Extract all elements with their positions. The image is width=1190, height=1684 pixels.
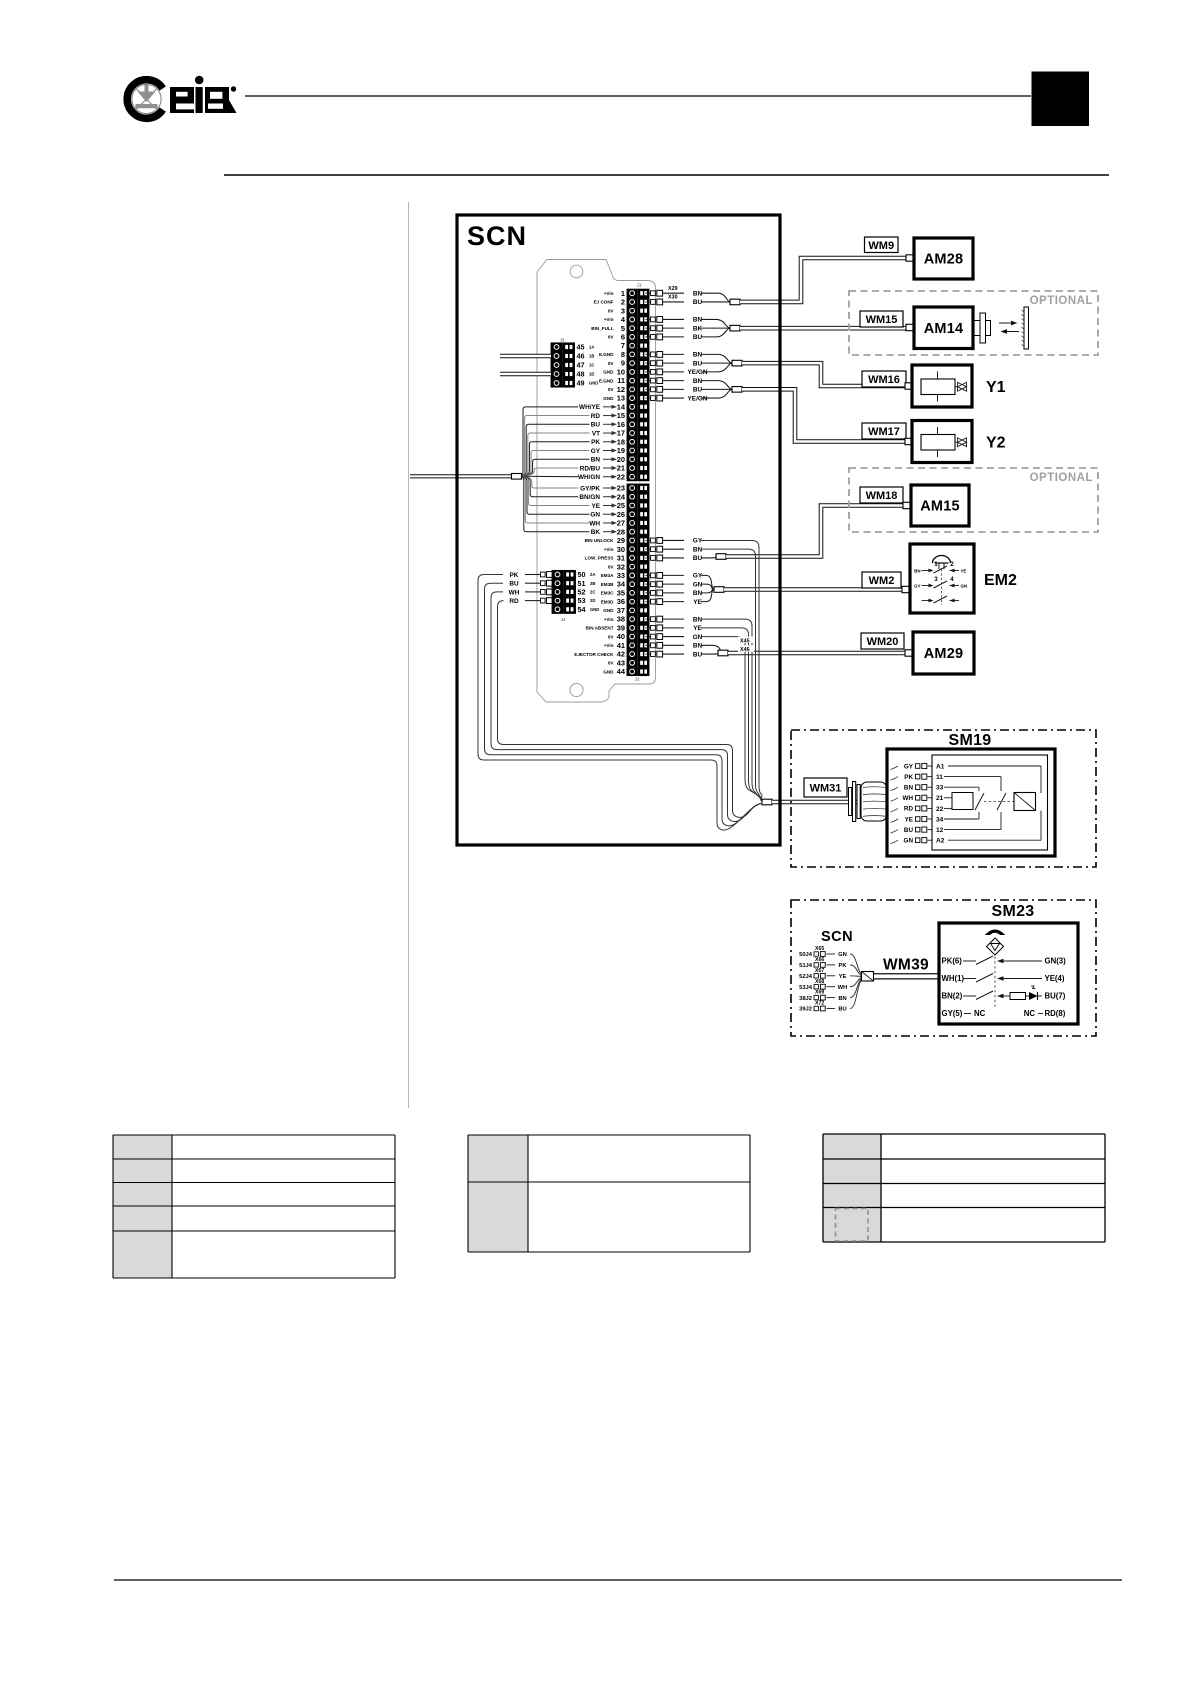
svg-text:Y2: Y2 (986, 435, 1006, 452)
svg-text:0V: 0V (608, 661, 615, 666)
svg-text:BIN ABSENT: BIN ABSENT (586, 626, 614, 631)
svg-text:BU(7): BU(7) (1045, 992, 1066, 1001)
svg-text:2C: 2C (590, 590, 595, 595)
svg-text:BN: BN (693, 317, 703, 324)
svg-text:GND: GND (603, 396, 614, 401)
svg-text:YE(4): YE(4) (1045, 974, 1065, 983)
svg-text:29: 29 (617, 536, 625, 545)
svg-text:RD: RD (509, 598, 519, 605)
svg-text:GND: GND (603, 608, 614, 613)
svg-text:22: 22 (617, 472, 625, 481)
svg-text:39: 39 (617, 623, 625, 632)
svg-text:WH: WH (509, 589, 520, 596)
svg-text:BU: BU (904, 827, 914, 834)
svg-text:WH/YE: WH/YE (579, 404, 601, 411)
svg-text:46: 46 (577, 352, 585, 361)
svg-text:0V: 0V (608, 335, 615, 340)
svg-text:GY: GY (914, 584, 920, 589)
svg-text:35: 35 (617, 588, 625, 597)
svg-text:YE: YE (839, 974, 847, 980)
svg-text:BN(2): BN(2) (942, 992, 963, 1001)
svg-text:51: 51 (578, 579, 586, 588)
svg-text:AM14: AM14 (924, 321, 963, 337)
svg-text:BN/GN: BN/GN (579, 494, 600, 501)
svg-text:41: 41 (617, 641, 625, 650)
svg-text:WM16: WM16 (868, 374, 900, 386)
svg-text:GN: GN (961, 584, 968, 589)
svg-text:2: 2 (950, 561, 954, 568)
svg-text:GY: GY (904, 763, 914, 770)
svg-text:54: 54 (578, 605, 586, 614)
svg-text:BN: BN (693, 616, 703, 623)
svg-text:BU: BU (591, 422, 601, 429)
svg-text:50J4: 50J4 (799, 952, 813, 958)
svg-text:17: 17 (617, 429, 625, 438)
svg-text:45: 45 (577, 343, 585, 352)
svg-text:WH(1): WH(1) (942, 974, 965, 983)
svg-text:PK: PK (904, 774, 913, 781)
svg-text:30: 30 (617, 545, 625, 554)
svg-text:BN: BN (904, 785, 914, 792)
svg-text:0V: 0V (608, 634, 615, 639)
svg-text:+Vin: +Vin (604, 617, 614, 622)
svg-text:12: 12 (936, 827, 944, 834)
svg-text:BN: BN (838, 996, 846, 1002)
svg-text:YE: YE (905, 816, 913, 823)
svg-text:J2: J2 (635, 677, 640, 682)
svg-text:GND: GND (589, 381, 598, 386)
svg-text:14: 14 (617, 402, 626, 411)
svg-text:42: 42 (617, 650, 625, 659)
svg-text:33: 33 (936, 785, 944, 792)
svg-text:BN: BN (693, 291, 703, 298)
svg-text:BIN UNLOCK: BIN UNLOCK (585, 538, 615, 543)
svg-text:+Vin: +Vin (604, 291, 614, 296)
svg-text:WM18: WM18 (866, 490, 898, 502)
svg-text:6: 6 (621, 333, 625, 342)
svg-text:BU: BU (838, 1007, 846, 1013)
svg-text:13: 13 (617, 394, 625, 403)
svg-text:YE: YE (961, 569, 967, 574)
svg-text:5: 5 (621, 324, 625, 333)
svg-text:WH: WH (903, 795, 914, 802)
svg-text:11: 11 (617, 376, 625, 385)
svg-text:WH: WH (838, 985, 848, 991)
svg-text:0V: 0V (608, 387, 615, 392)
svg-text:10: 10 (617, 367, 625, 376)
svg-text:OPTIONAL: OPTIONAL (1030, 472, 1093, 484)
svg-text:50: 50 (578, 570, 586, 579)
svg-text:7: 7 (621, 341, 625, 350)
svg-text:1: 1 (934, 561, 938, 568)
svg-text:BN: BN (693, 378, 703, 385)
svg-text:1B: 1B (589, 354, 594, 359)
svg-text:3: 3 (621, 306, 625, 315)
svg-text:49: 49 (577, 379, 585, 388)
svg-text:WM39: WM39 (883, 957, 929, 974)
svg-text:J3: J3 (560, 338, 565, 343)
svg-text:PK(6): PK(6) (942, 957, 963, 966)
svg-text:15: 15 (617, 411, 625, 420)
svg-text:RD: RD (904, 806, 914, 813)
svg-text:9: 9 (621, 359, 625, 368)
svg-text:34: 34 (617, 580, 626, 589)
svg-text:33: 33 (617, 571, 625, 580)
svg-text:GY: GY (693, 538, 703, 545)
svg-text:3: 3 (934, 576, 938, 583)
svg-text:RD: RD (591, 413, 601, 420)
svg-text:BN: BN (693, 546, 703, 553)
svg-text:39J2: 39J2 (799, 1007, 812, 1013)
svg-text:PK: PK (591, 439, 600, 446)
svg-text:1A: 1A (589, 345, 594, 350)
svg-text:21: 21 (617, 464, 625, 473)
svg-text:WM17: WM17 (868, 426, 900, 438)
svg-text:WM20: WM20 (867, 636, 899, 648)
svg-text:BIN_FULL: BIN_FULL (591, 326, 613, 331)
svg-text:GN: GN (838, 952, 847, 958)
svg-text:BU: BU (693, 334, 703, 341)
svg-text:GY: GY (591, 448, 601, 455)
svg-text:E.GND: E.GND (599, 378, 614, 383)
svg-text:BU: BU (693, 299, 703, 306)
svg-text:EM3B: EM3B (601, 582, 614, 587)
svg-text:SCN: SCN (467, 221, 527, 251)
svg-text:PK: PK (510, 572, 519, 579)
svg-text:2D: 2D (590, 598, 595, 603)
svg-text:0V: 0V (608, 308, 615, 313)
svg-text:BU: BU (509, 581, 519, 588)
svg-text:WM15: WM15 (866, 314, 898, 326)
svg-text:WH: WH (589, 520, 600, 527)
svg-text:31: 31 (617, 554, 625, 563)
svg-text:X46: X46 (740, 647, 750, 653)
svg-text:1D: 1D (589, 372, 594, 377)
svg-text:44: 44 (617, 667, 626, 676)
svg-text:1: 1 (621, 289, 625, 298)
svg-text:+Vin: +Vin (604, 317, 614, 322)
svg-text:BN: BN (914, 569, 920, 574)
svg-text:22: 22 (936, 806, 944, 813)
svg-text:24: 24 (617, 492, 626, 501)
svg-text:RD/BU: RD/BU (580, 465, 601, 472)
svg-text:GY(5): GY(5) (942, 1009, 963, 1018)
svg-text:BN: BN (591, 457, 601, 464)
svg-text:RD(8): RD(8) (1045, 1009, 1066, 1018)
svg-text:YE: YE (591, 503, 600, 510)
svg-text:GY: GY (693, 573, 703, 580)
svg-text:53: 53 (578, 596, 586, 605)
svg-text:2A: 2A (590, 572, 595, 577)
svg-text:48: 48 (577, 370, 585, 379)
svg-text:GN: GN (904, 838, 914, 845)
svg-text:BK: BK (693, 325, 703, 332)
svg-text:38J2: 38J2 (799, 996, 812, 1002)
svg-text:25: 25 (617, 501, 625, 510)
svg-text:SM23: SM23 (992, 903, 1035, 920)
svg-text:34: 34 (936, 816, 944, 823)
svg-text:+Vin: +Vin (604, 547, 614, 552)
svg-text:BN: BN (693, 643, 703, 650)
svg-text:19: 19 (617, 446, 625, 455)
svg-text:18: 18 (617, 437, 625, 446)
svg-text:EM3C: EM3C (601, 591, 614, 596)
svg-text:WM2: WM2 (869, 575, 895, 587)
svg-text:+Vin: +Vin (604, 643, 614, 648)
svg-text:AM15: AM15 (920, 499, 959, 515)
svg-text:BK: BK (591, 529, 601, 536)
svg-text:53J4: 53J4 (799, 985, 813, 991)
svg-text:GN: GN (693, 581, 703, 588)
svg-text:WM31: WM31 (810, 783, 842, 795)
svg-text:43: 43 (617, 658, 625, 667)
svg-text:VT: VT (592, 430, 600, 437)
svg-text:X45: X45 (740, 638, 750, 644)
svg-text:2: 2 (621, 298, 625, 307)
svg-text:40: 40 (617, 632, 625, 641)
svg-text:EM2: EM2 (984, 572, 1017, 589)
svg-text:YE/GN: YE/GN (688, 395, 708, 402)
svg-text:BU: BU (693, 360, 703, 367)
svg-text:J4: J4 (561, 617, 566, 622)
svg-text:GND: GND (603, 669, 614, 674)
svg-text:BU: BU (693, 651, 703, 658)
svg-text:WM9: WM9 (868, 240, 894, 252)
svg-text:BU: BU (693, 555, 703, 562)
svg-text:J1: J1 (637, 283, 642, 288)
svg-text:2B: 2B (590, 581, 595, 586)
svg-text:X29: X29 (668, 286, 678, 292)
svg-text:0V: 0V (608, 361, 615, 366)
svg-text:GN: GN (693, 634, 703, 641)
svg-text:BU: BU (693, 387, 703, 394)
svg-text:GY/PK: GY/PK (580, 485, 600, 492)
svg-text:NC: NC (974, 1009, 986, 1018)
svg-text:20: 20 (617, 455, 625, 464)
svg-text:X30: X30 (668, 295, 678, 301)
svg-text:32: 32 (617, 562, 625, 571)
svg-text:YE: YE (693, 625, 702, 632)
svg-text:PK: PK (838, 963, 847, 969)
svg-text:A2: A2 (936, 838, 945, 845)
svg-text:12: 12 (617, 385, 625, 394)
svg-text:EM3D: EM3D (601, 599, 614, 604)
svg-text:26: 26 (617, 510, 625, 519)
svg-text:52: 52 (578, 588, 586, 597)
svg-text:37: 37 (617, 606, 625, 615)
svg-text:OPTIONAL: OPTIONAL (1030, 295, 1093, 307)
svg-text:LOW_PRESS: LOW_PRESS (585, 556, 614, 561)
svg-text:28: 28 (617, 527, 625, 536)
svg-text:AM29: AM29 (924, 646, 963, 662)
svg-text:YE: YE (693, 599, 702, 606)
svg-text:11: 11 (936, 774, 943, 781)
svg-text:E.GND: E.GND (599, 352, 614, 357)
svg-text:Y1: Y1 (986, 379, 1006, 396)
svg-text:36: 36 (617, 597, 625, 606)
svg-text:27: 27 (617, 519, 625, 528)
svg-text:52J4: 52J4 (799, 974, 813, 980)
svg-text:EM3A: EM3A (601, 573, 614, 578)
svg-text:21: 21 (936, 795, 944, 802)
svg-text:EJECTOR CHECK: EJECTOR CHECK (574, 652, 614, 657)
svg-text:EJ CONF: EJ CONF (594, 300, 614, 305)
svg-text:GND: GND (603, 370, 614, 375)
svg-text:BN: BN (693, 590, 703, 597)
svg-text:NC: NC (1024, 1009, 1036, 1018)
svg-text:WH/GN: WH/GN (578, 474, 600, 481)
svg-text:47: 47 (577, 361, 585, 370)
svg-text:GN(3): GN(3) (1045, 957, 1067, 966)
svg-text:8: 8 (621, 350, 625, 359)
svg-text:0V: 0V (608, 564, 615, 569)
svg-text:SCN: SCN (821, 929, 853, 945)
svg-text:4: 4 (950, 576, 954, 583)
svg-text:SM19: SM19 (949, 732, 992, 749)
svg-text:23: 23 (617, 484, 625, 493)
svg-text:A1: A1 (936, 763, 945, 770)
svg-text:38: 38 (617, 615, 625, 624)
svg-text:GND: GND (590, 607, 599, 612)
svg-text:BN: BN (693, 352, 703, 359)
svg-text:16: 16 (617, 420, 625, 429)
svg-text:YE/GN: YE/GN (688, 369, 708, 376)
svg-text:51J4: 51J4 (799, 963, 813, 969)
svg-text:AM28: AM28 (924, 252, 963, 268)
svg-text:1C: 1C (589, 363, 594, 368)
svg-text:GN: GN (590, 512, 600, 519)
